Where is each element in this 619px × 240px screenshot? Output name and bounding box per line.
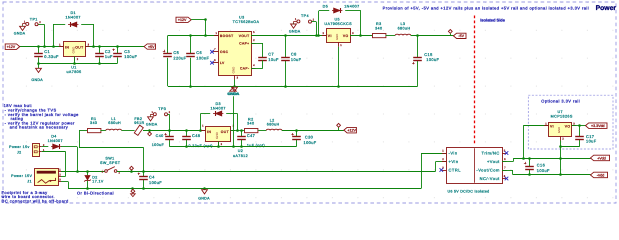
label C8 10uF bbox=[291, 52, 302, 62]
wire D1 bypass bbox=[53, 24, 93, 26]
svg-text:CAP-: CAP- bbox=[240, 67, 249, 71]
svg-text:+12V: +12V bbox=[7, 45, 16, 49]
wire R3 to L3 bbox=[386, 35, 396, 37]
svg-text:uA7812: uA7812 bbox=[233, 154, 248, 158]
svg-text:Power 15v: Power 15v bbox=[9, 145, 30, 149]
label C17 10uF bbox=[586, 134, 597, 143]
junction dots +Vout bbox=[522, 157, 531, 160]
svg-text:D4: D4 bbox=[51, 135, 57, 139]
global label -Vdd bbox=[591, 172, 608, 178]
wire TP3 drop bbox=[168, 114, 170, 130]
wire -Vout row bbox=[502, 170, 591, 175]
svg-text:GND: GND bbox=[215, 131, 219, 139]
wire VOUT (-12V) rail bbox=[251, 35, 326, 37]
global label +12V (section2) bbox=[176, 17, 191, 22]
svg-text:C48: C48 bbox=[192, 133, 200, 138]
svg-text:+3.3Vdd: +3.3Vdd bbox=[591, 124, 605, 128]
label D4 1N4007 bbox=[48, 135, 63, 144]
no-connect X OSC bbox=[210, 50, 214, 54]
svg-text:TP4: TP4 bbox=[301, 14, 309, 18]
wire D1 right leg bbox=[93, 24, 95, 47]
note Or Bi-Directional bbox=[77, 190, 114, 195]
ferrite bead FB2 bbox=[134, 125, 143, 135]
svg-text:-Vdd: -Vdd bbox=[597, 173, 605, 177]
svg-text:C16: C16 bbox=[537, 163, 545, 168]
svg-text:961R: 961R bbox=[134, 121, 144, 125]
wire C4 leads bbox=[143, 171, 145, 189]
note Optional 3.3V rail bbox=[541, 99, 580, 104]
svg-text:C5: C5 bbox=[173, 50, 179, 55]
svg-text:-Vout/Com: -Vout/Com bbox=[476, 167, 500, 172]
label C6 100nF bbox=[196, 50, 209, 60]
inductor L3 bbox=[395, 34, 411, 35]
junction dots rail C bbox=[86, 187, 206, 190]
junction dots gnd 1 bbox=[73, 62, 101, 65]
label Power 15v J2 bbox=[9, 145, 30, 155]
svg-text:CTRL: CTRL bbox=[449, 167, 462, 172]
svg-text:100uF: 100uF bbox=[149, 180, 162, 185]
svg-text:0.33uF (opt): 0.33uF (opt) bbox=[189, 144, 213, 148]
label C15 100uF bbox=[424, 52, 439, 62]
svg-text:J2: J2 bbox=[17, 151, 22, 155]
junction dots -Vout bbox=[528, 173, 562, 176]
junction dots feed bbox=[189, 18, 207, 37]
test point diamond (row3) bbox=[148, 130, 152, 136]
note footprint bbox=[2, 190, 69, 203]
wire U3 GND drop bbox=[234, 80, 236, 87]
wire riser to switch row bbox=[143, 147, 145, 171]
svg-text:C40: C40 bbox=[156, 134, 164, 138]
title Power bbox=[596, 5, 617, 12]
svg-text:DC connector will be off-board: DC connector will be off-board bbox=[2, 198, 69, 203]
junction dots row 3 right bbox=[236, 129, 298, 132]
svg-text:340: 340 bbox=[90, 121, 97, 125]
svg-text:1uF: 1uF bbox=[105, 54, 113, 59]
label C16 100uF bbox=[537, 163, 550, 173]
wire D5 right leg bbox=[360, 11, 362, 36]
svg-text:10uF: 10uF bbox=[268, 57, 279, 62]
label C7 10uF bbox=[268, 52, 279, 62]
svg-text:C15: C15 bbox=[424, 52, 432, 57]
isolation barrier (red dashed) bbox=[474, 16, 476, 145]
wire R2-L2 bbox=[258, 130, 266, 132]
junction dot U7 gnd bbox=[559, 145, 562, 160]
svg-text:C47: C47 bbox=[247, 133, 255, 138]
inductor L1 bbox=[106, 129, 122, 130]
svg-text:+12V: +12V bbox=[347, 128, 356, 132]
wire R1-L1 bbox=[100, 130, 106, 132]
label U5 UA7905CKCS bbox=[324, 17, 352, 26]
capacitor C48 bbox=[182, 137, 191, 140]
test point diamond (-5V) bbox=[448, 30, 452, 36]
svg-text:C4: C4 bbox=[149, 175, 155, 180]
svg-text:GNDA: GNDA bbox=[289, 30, 301, 34]
global label +12V (input) bbox=[5, 44, 20, 50]
capacitor C8 bbox=[281, 58, 290, 61]
note block 18V max bbox=[4, 103, 80, 130]
svg-text:680uH: 680uH bbox=[108, 121, 121, 125]
label R3 340 bbox=[375, 22, 382, 31]
svg-text:340: 340 bbox=[247, 122, 254, 126]
junction dots gnd 3 bbox=[185, 145, 243, 148]
wire section3 ground rail bbox=[169, 146, 296, 148]
svg-text:Provision of +5V, -5V and +12V: Provision of +5V, -5V and +12V rails plu… bbox=[383, 6, 589, 11]
svg-text:17.1V: 17.1V bbox=[92, 180, 104, 184]
capacitor C4 bbox=[138, 173, 148, 180]
svg-text:OUT: OUT bbox=[221, 130, 229, 134]
svg-text:SW1: SW1 bbox=[105, 157, 114, 161]
note: provision text bbox=[383, 6, 589, 11]
wire C1 leads bbox=[38, 47, 40, 64]
wire TP4 drop bbox=[312, 22, 317, 36]
label R1 340 bbox=[90, 117, 97, 125]
resistor R1 bbox=[88, 129, 101, 133]
wire C47 leads bbox=[241, 130, 243, 146]
test point diamond (row A) bbox=[130, 166, 134, 171]
svg-text:VI: VI bbox=[550, 124, 554, 128]
ground GNDA (rail C) bbox=[198, 189, 210, 201]
svg-text:U7: U7 bbox=[557, 110, 563, 114]
regulator U7 MCP1826S bbox=[544, 122, 576, 140]
wire C2 leads bbox=[99, 47, 101, 64]
capacitor C47 bbox=[237, 137, 246, 140]
wire D3 left leg bbox=[200, 114, 202, 130]
label L2 680uH bbox=[267, 118, 280, 126]
regulator U5 UA7905 bbox=[322, 29, 355, 48]
svg-text:U5: U5 bbox=[334, 17, 340, 21]
svg-text:Isolated Side: Isolated Side bbox=[480, 18, 505, 23]
dc/dc module U6 bbox=[442, 148, 507, 184]
label D5 1N4007 bbox=[323, 5, 360, 9]
svg-text:and heatsink as necessary: and heatsink as necessary bbox=[10, 125, 69, 130]
svg-text:MCP1826S: MCP1826S bbox=[551, 115, 573, 119]
svg-text:340: 340 bbox=[375, 26, 382, 30]
wire J2.2 to D4 bbox=[42, 146, 49, 148]
junction dots -12V rail bbox=[284, 34, 419, 37]
wire section1 ground rail bbox=[38, 63, 117, 65]
resistor R3 bbox=[373, 34, 386, 38]
wire C16 leads bbox=[529, 158, 531, 174]
wire D5 left leg bbox=[318, 11, 320, 36]
svg-text:1uF (opt): 1uF (opt) bbox=[247, 144, 265, 148]
svg-text:U1: U1 bbox=[71, 66, 77, 70]
wire U1 GND bbox=[74, 57, 76, 64]
svg-text:C8: C8 bbox=[291, 52, 297, 57]
wire FB2 to U2 bbox=[143, 130, 206, 132]
wire U2 out row bbox=[231, 130, 247, 132]
svg-text:R3: R3 bbox=[376, 22, 382, 26]
wire switch row left bbox=[61, 171, 105, 173]
svg-text:Optional 3.3V rail: Optional 3.3V rail bbox=[541, 99, 580, 104]
svg-text:+12V: +12V bbox=[178, 18, 187, 22]
label U3 TC7662BxOA bbox=[233, 16, 260, 25]
svg-text:100uF: 100uF bbox=[426, 57, 439, 62]
label U6 5V DC/DC Isolated bbox=[448, 189, 490, 193]
label U1 uA7805 bbox=[66, 66, 81, 74]
note: Isolated Side bbox=[480, 18, 505, 23]
wire C40 leads bbox=[169, 130, 171, 146]
svg-text:100uF: 100uF bbox=[152, 143, 165, 147]
svg-text:10uF: 10uF bbox=[586, 139, 597, 144]
label C4 100uF bbox=[149, 175, 162, 185]
test point TP3 bbox=[150, 107, 170, 116]
ground GNDA (U3) bbox=[228, 86, 240, 96]
svg-text:+5V: +5V bbox=[148, 45, 155, 49]
svg-text:GNDA: GNDA bbox=[227, 92, 239, 96]
svg-text:U2: U2 bbox=[238, 149, 244, 153]
label U7 MCP1826S bbox=[551, 110, 573, 119]
svg-text:+Vin: +Vin bbox=[449, 159, 459, 164]
regulator U2 uA7812 bbox=[201, 125, 235, 146]
svg-text:TP3: TP3 bbox=[158, 107, 166, 111]
capacitor C16 bbox=[524, 162, 534, 170]
capacitor C6 bbox=[186, 54, 195, 57]
wire U7 feed bbox=[523, 126, 549, 159]
svg-text:100uF: 100uF bbox=[304, 140, 317, 145]
wire C6 leads bbox=[190, 36, 192, 87]
wire C7 bottom to CAP- bbox=[251, 60, 263, 68]
wire +12V feed bbox=[168, 20, 219, 36]
svg-text:0.33uF: 0.33uF bbox=[44, 54, 59, 59]
junction dots row A bbox=[76, 170, 145, 173]
capacitor C1 bbox=[34, 54, 43, 57]
svg-text:+Vdd: +Vdd bbox=[597, 156, 606, 160]
svg-text:uA7805: uA7805 bbox=[66, 70, 81, 74]
svg-text:-Vin: -Vin bbox=[449, 150, 458, 155]
wire VO to R3 bbox=[350, 35, 372, 37]
wire L1-FB2 bbox=[122, 130, 135, 132]
wire C8 leads bbox=[285, 36, 287, 87]
wire C30 leads bbox=[296, 130, 298, 146]
svg-text:GND: GND bbox=[335, 34, 339, 40]
wire +Vout row bbox=[502, 158, 591, 161]
capacitor C3 bbox=[112, 49, 121, 57]
switch SW1 SW_SPST bbox=[102, 167, 121, 175]
ground GNDA (TP1) bbox=[14, 25, 26, 35]
junction dots rail 1 bbox=[37, 45, 119, 48]
svg-text:D5: D5 bbox=[323, 5, 329, 9]
svg-text:100nF: 100nF bbox=[196, 55, 209, 60]
connector J1 barrel jack bbox=[35, 168, 62, 185]
wire D4 out bbox=[61, 147, 77, 172]
wire C17 leads bbox=[579, 126, 581, 147]
svg-text:1N4007: 1N4007 bbox=[48, 139, 63, 143]
svg-text:C7: C7 bbox=[268, 52, 274, 57]
wire L3 to -5V bbox=[411, 35, 454, 37]
label C30 100uF bbox=[304, 135, 317, 145]
ground GNDA (TP4) bbox=[289, 23, 301, 34]
svg-text:VO: VO bbox=[565, 124, 571, 128]
svg-text:GNDA: GNDA bbox=[146, 123, 158, 127]
no-connect X CTRL bbox=[440, 168, 444, 172]
wire D3 right leg bbox=[237, 114, 239, 130]
svg-text:VOUT: VOUT bbox=[239, 34, 250, 38]
svg-text:L3: L3 bbox=[400, 22, 405, 26]
svg-text:BOOST: BOOST bbox=[220, 34, 234, 38]
label C40 100uF bbox=[152, 134, 165, 147]
label C47 1uF (opt) bbox=[247, 133, 265, 148]
svg-text:GND: GND bbox=[557, 127, 561, 133]
svg-text:C30: C30 bbox=[305, 135, 314, 140]
svg-text:OUT: OUT bbox=[75, 45, 83, 49]
wire U2 GND bbox=[218, 142, 220, 147]
svg-text:D1: D1 bbox=[70, 11, 76, 15]
wire switch row right bbox=[117, 162, 447, 172]
svg-text:1N4007: 1N4007 bbox=[211, 106, 226, 110]
wire bottom ground rail bbox=[68, 153, 446, 189]
svg-text:100uF: 100uF bbox=[537, 168, 550, 173]
wire D5 bypass bbox=[319, 10, 361, 12]
wire section2 ground rail bbox=[168, 86, 418, 88]
svg-text:U6 5V DC/DC Isolated: U6 5V DC/DC Isolated bbox=[448, 189, 490, 193]
regulator U1 uA7805 bbox=[59, 42, 90, 62]
svg-text:680uH: 680uH bbox=[267, 123, 280, 127]
svg-text:Or Bi-Directional: Or Bi-Directional bbox=[77, 190, 114, 195]
label C1 0.33uF bbox=[44, 49, 59, 59]
label U2 uA7812 bbox=[233, 149, 248, 158]
svg-text:SW_SPST: SW_SPST bbox=[100, 161, 121, 165]
svg-text:TC7662BxOA: TC7662BxOA bbox=[233, 20, 260, 24]
wire U5 GND bbox=[338, 47, 340, 86]
svg-text:D2: D2 bbox=[92, 175, 97, 179]
wire CAP+ to C7 bbox=[251, 43, 263, 57]
label Power 15V J1 bbox=[11, 174, 32, 184]
diode D4 bbox=[51, 144, 61, 149]
label FB2 961R bbox=[134, 117, 144, 125]
wire row to R1 bbox=[79, 130, 87, 132]
optional 3.3V dashed box bbox=[528, 95, 613, 149]
svg-text:LV: LV bbox=[220, 61, 225, 65]
capacitor C17 bbox=[575, 137, 584, 140]
svg-text:GNDA: GNDA bbox=[14, 31, 26, 35]
wire D1 left leg bbox=[53, 24, 55, 47]
svg-text:CAP+: CAP+ bbox=[239, 42, 249, 46]
capacitor C40 bbox=[164, 133, 173, 140]
svg-text:GNDA: GNDA bbox=[31, 78, 43, 82]
svg-text:NC/-Vout: NC/-Vout bbox=[480, 176, 501, 181]
TVS diode D2 bbox=[84, 171, 91, 189]
junction dots gnd 2 bbox=[189, 85, 340, 88]
wire J2.1 link bbox=[42, 152, 66, 177]
wire C48 leads bbox=[186, 130, 188, 146]
svg-text:1N4007: 1N4007 bbox=[344, 5, 359, 9]
wire L2 to +12V bbox=[282, 130, 344, 132]
connector J2 bbox=[33, 144, 45, 157]
diode D5 bbox=[332, 8, 342, 13]
svg-text:1N4007: 1N4007 bbox=[66, 16, 81, 20]
test point TP1 bbox=[22, 17, 41, 25]
diode D3 bbox=[213, 111, 223, 116]
test point diamond (+12V) bbox=[337, 123, 341, 130]
svg-text:Power 15V: Power 15V bbox=[11, 174, 32, 178]
wire feed riser left bbox=[79, 130, 143, 147]
label R2 340 bbox=[247, 117, 254, 125]
junction dot U7 out bbox=[578, 124, 581, 127]
svg-text:GND: GND bbox=[232, 66, 236, 74]
wire U7 gnd net bbox=[560, 141, 579, 175]
wire C3 leads bbox=[117, 47, 119, 64]
label D3 1N4007 bbox=[211, 102, 226, 110]
svg-text:Power: Power bbox=[596, 5, 617, 12]
no-connect X Trim bbox=[505, 151, 509, 155]
resistor R2 bbox=[245, 129, 258, 133]
svg-text:GNDA: GNDA bbox=[198, 197, 210, 201]
wire U7 out bbox=[572, 125, 586, 127]
label C5 220uF bbox=[173, 50, 186, 60]
svg-text:100uF: 100uF bbox=[124, 54, 137, 59]
global label +5V bbox=[144, 44, 156, 49]
svg-text:10uF: 10uF bbox=[291, 57, 302, 62]
svg-text:680uH: 680uH bbox=[398, 26, 411, 30]
wire C5 leads bbox=[167, 36, 169, 87]
junction dots row 3 left bbox=[148, 129, 202, 132]
label C3 100uF bbox=[124, 49, 137, 59]
wire J1.3 to gnd bbox=[61, 182, 69, 189]
label C2 1uF bbox=[105, 49, 113, 59]
label SW1 SW_SPST bbox=[100, 157, 121, 166]
capacitor C7 bbox=[258, 58, 267, 61]
capacitor C15 bbox=[412, 58, 422, 65]
diode D1 bbox=[68, 22, 78, 27]
svg-text:C6: C6 bbox=[196, 50, 202, 55]
global label +3.3Vdd bbox=[586, 123, 608, 128]
no-connect X LV bbox=[210, 61, 214, 65]
svg-text:VI: VI bbox=[328, 34, 332, 38]
no-connect X NC/-Vout bbox=[505, 177, 509, 181]
svg-text:+Vout: +Vout bbox=[487, 159, 500, 164]
label C48 0.33uF (opt) bbox=[189, 133, 213, 148]
svg-text:Trim/NC: Trim/NC bbox=[482, 150, 500, 155]
svg-text:GND: GND bbox=[72, 46, 76, 54]
global label +12V (output) bbox=[344, 127, 357, 132]
svg-text:IN: IN bbox=[207, 130, 211, 134]
label L3 680uH bbox=[398, 22, 411, 31]
ground GNDA up (section3) bbox=[227, 88, 239, 96]
capacitor C30 bbox=[291, 133, 300, 140]
svg-text:U3: U3 bbox=[239, 16, 245, 20]
svg-text:VO: VO bbox=[343, 34, 349, 38]
ground GNDA (section1) bbox=[31, 62, 43, 82]
wire C15 leads bbox=[417, 36, 419, 87]
global label -5V bbox=[453, 33, 466, 38]
label L1 680uH bbox=[108, 117, 121, 125]
capacitor C5 bbox=[163, 50, 172, 57]
ground GNDA (TP3) bbox=[146, 116, 158, 127]
svg-text:UA7905CKCS: UA7905CKCS bbox=[324, 22, 352, 26]
test point TP4 bbox=[294, 14, 315, 23]
charge pump U3 TC7662 bbox=[213, 31, 256, 79]
label D2 17.1V bbox=[92, 175, 104, 183]
svg-text:TP1: TP1 bbox=[30, 17, 38, 21]
inductor L2 bbox=[266, 129, 282, 130]
wire D3 bypass bbox=[200, 113, 237, 115]
test point diamond (rail C) bbox=[131, 189, 136, 197]
svg-text:-5V: -5V bbox=[458, 34, 464, 38]
capacitor C2 bbox=[95, 54, 104, 57]
svg-text:220uF: 220uF bbox=[173, 55, 186, 60]
svg-text:IN: IN bbox=[65, 45, 69, 49]
global label +Vdd bbox=[591, 155, 610, 161]
wire TP1 drop bbox=[38, 24, 45, 47]
svg-text:OSC: OSC bbox=[220, 50, 229, 54]
wire +12V input rail bbox=[20, 46, 144, 48]
label D1 1N4007 bbox=[66, 11, 81, 19]
wire GNDA riser (section3) bbox=[233, 96, 235, 146]
svg-text:J1: J1 bbox=[27, 179, 32, 183]
